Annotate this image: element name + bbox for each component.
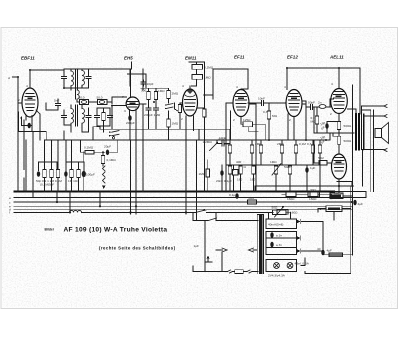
second group box xyxy=(66,162,84,171)
svg-text:160: 160 xyxy=(237,178,242,182)
screen wire right xyxy=(249,104,256,140)
svg-text:3: 3 xyxy=(124,109,126,113)
mains switch on line f xyxy=(196,210,205,212)
junction verticals below bus xyxy=(33,192,100,213)
svg-text:50nF: 50nF xyxy=(219,138,226,142)
cathode leads below tube xyxy=(26,116,33,192)
svg-text:4μF: 4μF xyxy=(358,202,364,206)
coupling to AEL11: cap 50pF xyxy=(302,101,309,107)
grid resistor 0.3M xyxy=(267,111,270,119)
svg-text:2V4,3/y4,3A: 2V4,3/y4,3A xyxy=(268,274,286,278)
speaker frame verticals xyxy=(362,110,374,192)
cap dark xyxy=(64,171,67,177)
cap 100nF xyxy=(329,194,332,200)
svg-text:0,3: 0,3 xyxy=(263,110,268,114)
svg-text:2n: 2n xyxy=(318,101,322,105)
resistor 3 xyxy=(56,170,59,178)
svg-text:0,1MΩ: 0,1MΩ xyxy=(107,158,117,162)
T2 primary coil xyxy=(71,105,73,132)
resistor 0.1M vertical xyxy=(101,156,104,164)
choke box 2 xyxy=(320,206,342,212)
T1 core xyxy=(76,70,78,118)
svg-text:160Ω: 160Ω xyxy=(290,211,298,215)
anode winding box xyxy=(266,232,297,255)
svg-text:300: 300 xyxy=(141,89,146,93)
svg-text:a 3×: a 3× xyxy=(276,234,282,238)
tube EH5 xyxy=(126,97,139,111)
resistor 50ohm horizontal xyxy=(248,196,257,204)
svg-text:EBF11: EBF11 xyxy=(21,56,35,61)
svg-text:50Ω: 50Ω xyxy=(272,206,278,210)
avc components between EM11/EF11 xyxy=(204,94,213,96)
svg-text:a 3×: a 3× xyxy=(276,243,282,247)
pot with arrow xyxy=(272,163,281,175)
resistor 5 xyxy=(77,170,80,178)
svg-text:1M 10n: 1M 10n xyxy=(68,179,79,183)
lamp winding box xyxy=(266,260,297,272)
coupling coil mid xyxy=(77,90,79,100)
svg-text:100μF: 100μF xyxy=(86,173,95,177)
feed resistor 0.1M xyxy=(192,65,214,70)
choke box 1 xyxy=(330,193,343,199)
cap 50pF xyxy=(37,171,40,177)
svg-text:AF 109 (10) W-A Truhe Violetta: AF 109 (10) W-A Truhe Violetta xyxy=(64,227,168,234)
svg-text:4: 4 xyxy=(236,85,238,89)
resistor 160 horizontal on line xyxy=(286,192,296,201)
resistor left of EM11 xyxy=(178,105,181,113)
trimmer oval xyxy=(315,101,331,109)
resistor 1 xyxy=(43,170,46,178)
svg-text:1MΩ: 1MΩ xyxy=(158,89,165,93)
resistor col 2 xyxy=(154,92,157,100)
diode arrow 2 xyxy=(297,236,301,240)
choke on line f xyxy=(70,210,82,212)
T2 bottom wires xyxy=(64,125,89,140)
trimmer 50,0 (right) xyxy=(97,96,108,105)
volume pot zigzag arrow xyxy=(103,166,106,183)
cap 200pF col1 xyxy=(146,106,151,112)
diode lead xyxy=(36,110,40,114)
svg-text:0,1MΩ: 0,1MΩ xyxy=(84,146,94,150)
row 1 resistors xyxy=(228,145,231,153)
top rail down xyxy=(129,69,131,86)
50 ohm pot above secondary xyxy=(272,206,287,217)
capacitor under EBF11 xyxy=(28,123,31,129)
svg-text:0,3: 0,3 xyxy=(307,142,312,146)
svg-text:40: 40 xyxy=(317,247,321,251)
trimmer 50,0 (left) xyxy=(79,96,89,105)
cathode lead xyxy=(130,109,137,140)
resistor 400 ohm box xyxy=(233,170,238,176)
svg-text:2: 2 xyxy=(18,98,20,102)
chassis arrow symbol xyxy=(205,259,212,263)
svg-text:50pF: 50pF xyxy=(308,101,315,105)
anode top wire xyxy=(338,68,340,89)
svg-text:AEL11: AEL11 xyxy=(329,55,344,60)
speaker xyxy=(375,123,389,144)
cathode box outline xyxy=(18,112,46,140)
caps left of cathode xyxy=(325,123,328,129)
transformer core xyxy=(259,215,262,275)
resistor 1M lower xyxy=(167,119,170,127)
resistor 0.3M small xyxy=(311,145,314,153)
T2 secondary coil xyxy=(82,105,84,132)
feed resistor 1M xyxy=(192,75,211,80)
svg-text:1MΩ: 1MΩ xyxy=(204,76,211,80)
svg-text:Bilder: Bilder xyxy=(45,228,55,232)
grid wire left xyxy=(226,103,233,140)
coupling cap 10nF to EF12 xyxy=(248,102,260,104)
primary switch lever xyxy=(208,218,217,221)
svg-text:4: 4 xyxy=(26,84,28,88)
resistor box 30ohm xyxy=(310,188,320,197)
cap 4uF xyxy=(305,167,308,173)
svg-text:400: 400 xyxy=(236,160,241,164)
EM11 leads xyxy=(186,95,204,214)
row 1 wires xyxy=(230,140,320,165)
svg-text:EF12: EF12 xyxy=(287,55,298,60)
T2 left cap xyxy=(62,114,67,120)
osc circuit caps right xyxy=(95,114,100,120)
svg-text:2: 2 xyxy=(289,118,291,122)
svg-text:2MΩ: 2MΩ xyxy=(277,142,284,146)
svg-text:0,1M: 0,1M xyxy=(299,142,306,146)
IF transformer T1 primary cap xyxy=(62,75,67,81)
grid chain right of tube: caps/resistors xyxy=(140,103,147,105)
svg-text:2: 2 xyxy=(330,112,332,116)
cap 50nF top xyxy=(220,141,226,146)
ground bus (thick) xyxy=(15,190,335,192)
svg-text:160: 160 xyxy=(250,178,255,182)
secondary top line xyxy=(257,214,263,216)
svg-text:5nF: 5nF xyxy=(54,99,59,103)
svg-text:2: 2 xyxy=(181,117,183,121)
svg-text:1μF: 1μF xyxy=(194,244,200,248)
resistor 160b horizontal on line xyxy=(308,192,318,201)
output transformer windings xyxy=(356,114,359,150)
resistor 160 on line f xyxy=(277,210,298,215)
svg-text:(rechte Seite des Schaltbildes: (rechte Seite des Schaltbildes) xyxy=(99,245,176,250)
tube AEL11 xyxy=(331,89,348,114)
mixer line xyxy=(112,97,127,104)
grid resistor 0.5M xyxy=(315,116,318,124)
bottom mains line xyxy=(193,271,235,273)
cathode + 125 ohm box xyxy=(241,117,243,125)
resistor 0.1M horizontal xyxy=(85,151,94,154)
cathode wires xyxy=(288,104,306,140)
wire trimmer row xyxy=(77,100,112,102)
resistor 1M left col xyxy=(206,169,209,177)
hook contacts mid xyxy=(222,248,227,252)
cap dark 2 xyxy=(82,171,86,177)
pilot lamp 2 xyxy=(287,263,293,269)
svg-text:SA2: SA2 xyxy=(318,156,324,160)
cap 10pF xyxy=(141,80,146,86)
speaker terminals xyxy=(384,105,387,152)
svg-text:50Ω: 50Ω xyxy=(248,196,254,200)
row 2 wires to bus xyxy=(230,165,320,192)
fuse xyxy=(235,270,244,274)
svg-text:30Ω: 30Ω xyxy=(310,188,316,192)
diode arrow 3 xyxy=(297,249,301,253)
svg-text:50,0: 50,0 xyxy=(97,96,103,100)
wire A down xyxy=(17,77,19,192)
svg-text:MΩ: MΩ xyxy=(311,120,317,124)
volume feed line xyxy=(79,139,117,141)
T1 secondary coil xyxy=(82,69,84,88)
band switch terminal xyxy=(109,131,112,136)
svg-text:10nF: 10nF xyxy=(258,97,265,101)
left edge verticals xyxy=(192,212,194,220)
svg-text:2MΩ: 2MΩ xyxy=(172,92,179,96)
avc chain down xyxy=(198,130,200,140)
T2 core xyxy=(76,106,78,126)
T1 primary coil xyxy=(71,69,73,90)
wires down mid xyxy=(81,62,137,214)
svg-text:(0,1M)5nF: (0,1M)5nF xyxy=(40,183,54,187)
svg-text:160Ω: 160Ω xyxy=(287,197,295,201)
wire line f continues xyxy=(82,211,274,213)
svg-text:1μF: 1μF xyxy=(310,166,316,170)
primary box xyxy=(193,221,258,272)
svg-text:4μF: 4μF xyxy=(327,249,333,253)
cap 4uF b xyxy=(321,250,324,256)
svg-text:8: 8 xyxy=(20,116,22,120)
resistor col 3 xyxy=(167,91,170,99)
svg-text:40mA(5×8): 40mA(5×8) xyxy=(268,223,283,227)
switch contacts right xyxy=(166,104,173,109)
cap 4uF a xyxy=(353,200,356,206)
svg-text:20μF: 20μF xyxy=(104,145,111,149)
svg-text:1MΩ: 1MΩ xyxy=(270,160,277,164)
anode wire top xyxy=(287,68,360,90)
top rail over T1 xyxy=(64,68,130,70)
svg-text:125Ω: 125Ω xyxy=(243,118,251,122)
diode arrow 1 xyxy=(297,220,301,224)
tube EBF11 xyxy=(22,70,38,117)
resistor 2 xyxy=(50,170,53,178)
rectifier heater link xyxy=(337,182,352,187)
T1 secondary cap xyxy=(86,75,91,81)
svg-text:200pF 1MΩ: 200pF 1MΩ xyxy=(144,113,161,117)
cap 5nF into detector xyxy=(56,102,61,108)
svg-text:10pF: 10pF xyxy=(147,82,154,86)
cap 20nF dark xyxy=(220,170,223,176)
svg-text:4Bel. 0,3A: 4Bel. 0,3A xyxy=(295,262,310,266)
cap 20uF electrolytic xyxy=(106,150,109,156)
svg-text:0,1MΩ: 0,1MΩ xyxy=(204,66,214,70)
grid lead left xyxy=(18,102,22,104)
svg-text:0,1μ: 0,1μ xyxy=(229,193,235,197)
svg-text:4: 4 xyxy=(182,84,184,88)
winding a 2x xyxy=(266,238,297,248)
anode top wire to HT rail xyxy=(30,69,64,71)
svg-text:EH5: EH5 xyxy=(124,56,133,61)
grid return xyxy=(314,107,354,136)
heater winding box xyxy=(266,219,297,229)
filter lines xyxy=(255,186,353,193)
svg-text:4: 4 xyxy=(331,82,333,86)
left resistor group box xyxy=(39,162,58,171)
svg-text:500Ω: 500Ω xyxy=(344,124,352,128)
cap col2 xyxy=(154,106,159,112)
svg-text:160Ω: 160Ω xyxy=(309,197,317,201)
svg-text:4: 4 xyxy=(284,85,286,89)
tube EM11 xyxy=(183,86,198,116)
pilot lamp 1 xyxy=(274,263,280,269)
svg-text:200pF: 200pF xyxy=(126,121,135,125)
detector wire xyxy=(46,103,58,110)
AZ11 bottom lead xyxy=(338,179,340,186)
vertical wires left section to bus xyxy=(23,120,25,192)
svg-text:500Ω: 500Ω xyxy=(344,139,352,143)
cathode resistors below xyxy=(338,114,340,122)
resistor 4 xyxy=(70,170,73,178)
svg-text:A: A xyxy=(7,76,10,80)
comp left of AZ11 xyxy=(318,156,327,165)
cap 200pF below tube xyxy=(128,115,131,121)
wire xyxy=(63,69,65,88)
row 2 resistors xyxy=(228,166,231,174)
tube EF12 xyxy=(286,90,302,117)
svg-text:a: a xyxy=(9,196,11,200)
bottom return xyxy=(305,272,351,274)
svg-text:2: 2 xyxy=(233,118,235,122)
svg-text:EM11: EM11 xyxy=(185,56,197,61)
anode loop top xyxy=(213,69,248,99)
resistor col 1 xyxy=(147,92,150,100)
secondary right wiring xyxy=(301,222,323,266)
speaker connection wires xyxy=(362,106,385,150)
wire band area xyxy=(93,127,230,140)
avc bus horizontals xyxy=(45,139,331,141)
wire T1 to EH5 xyxy=(64,87,89,89)
svg-text:MΩ: MΩ xyxy=(272,114,278,118)
T2 right cap xyxy=(86,114,91,120)
svg-text:7: 7 xyxy=(122,95,124,99)
hatched resistor xyxy=(329,253,343,257)
svg-text:1MΩ: 1MΩ xyxy=(172,122,179,126)
tube EF11 xyxy=(233,89,249,117)
cap 0.1uF xyxy=(235,193,238,199)
svg-text:EF11: EF11 xyxy=(234,55,245,60)
